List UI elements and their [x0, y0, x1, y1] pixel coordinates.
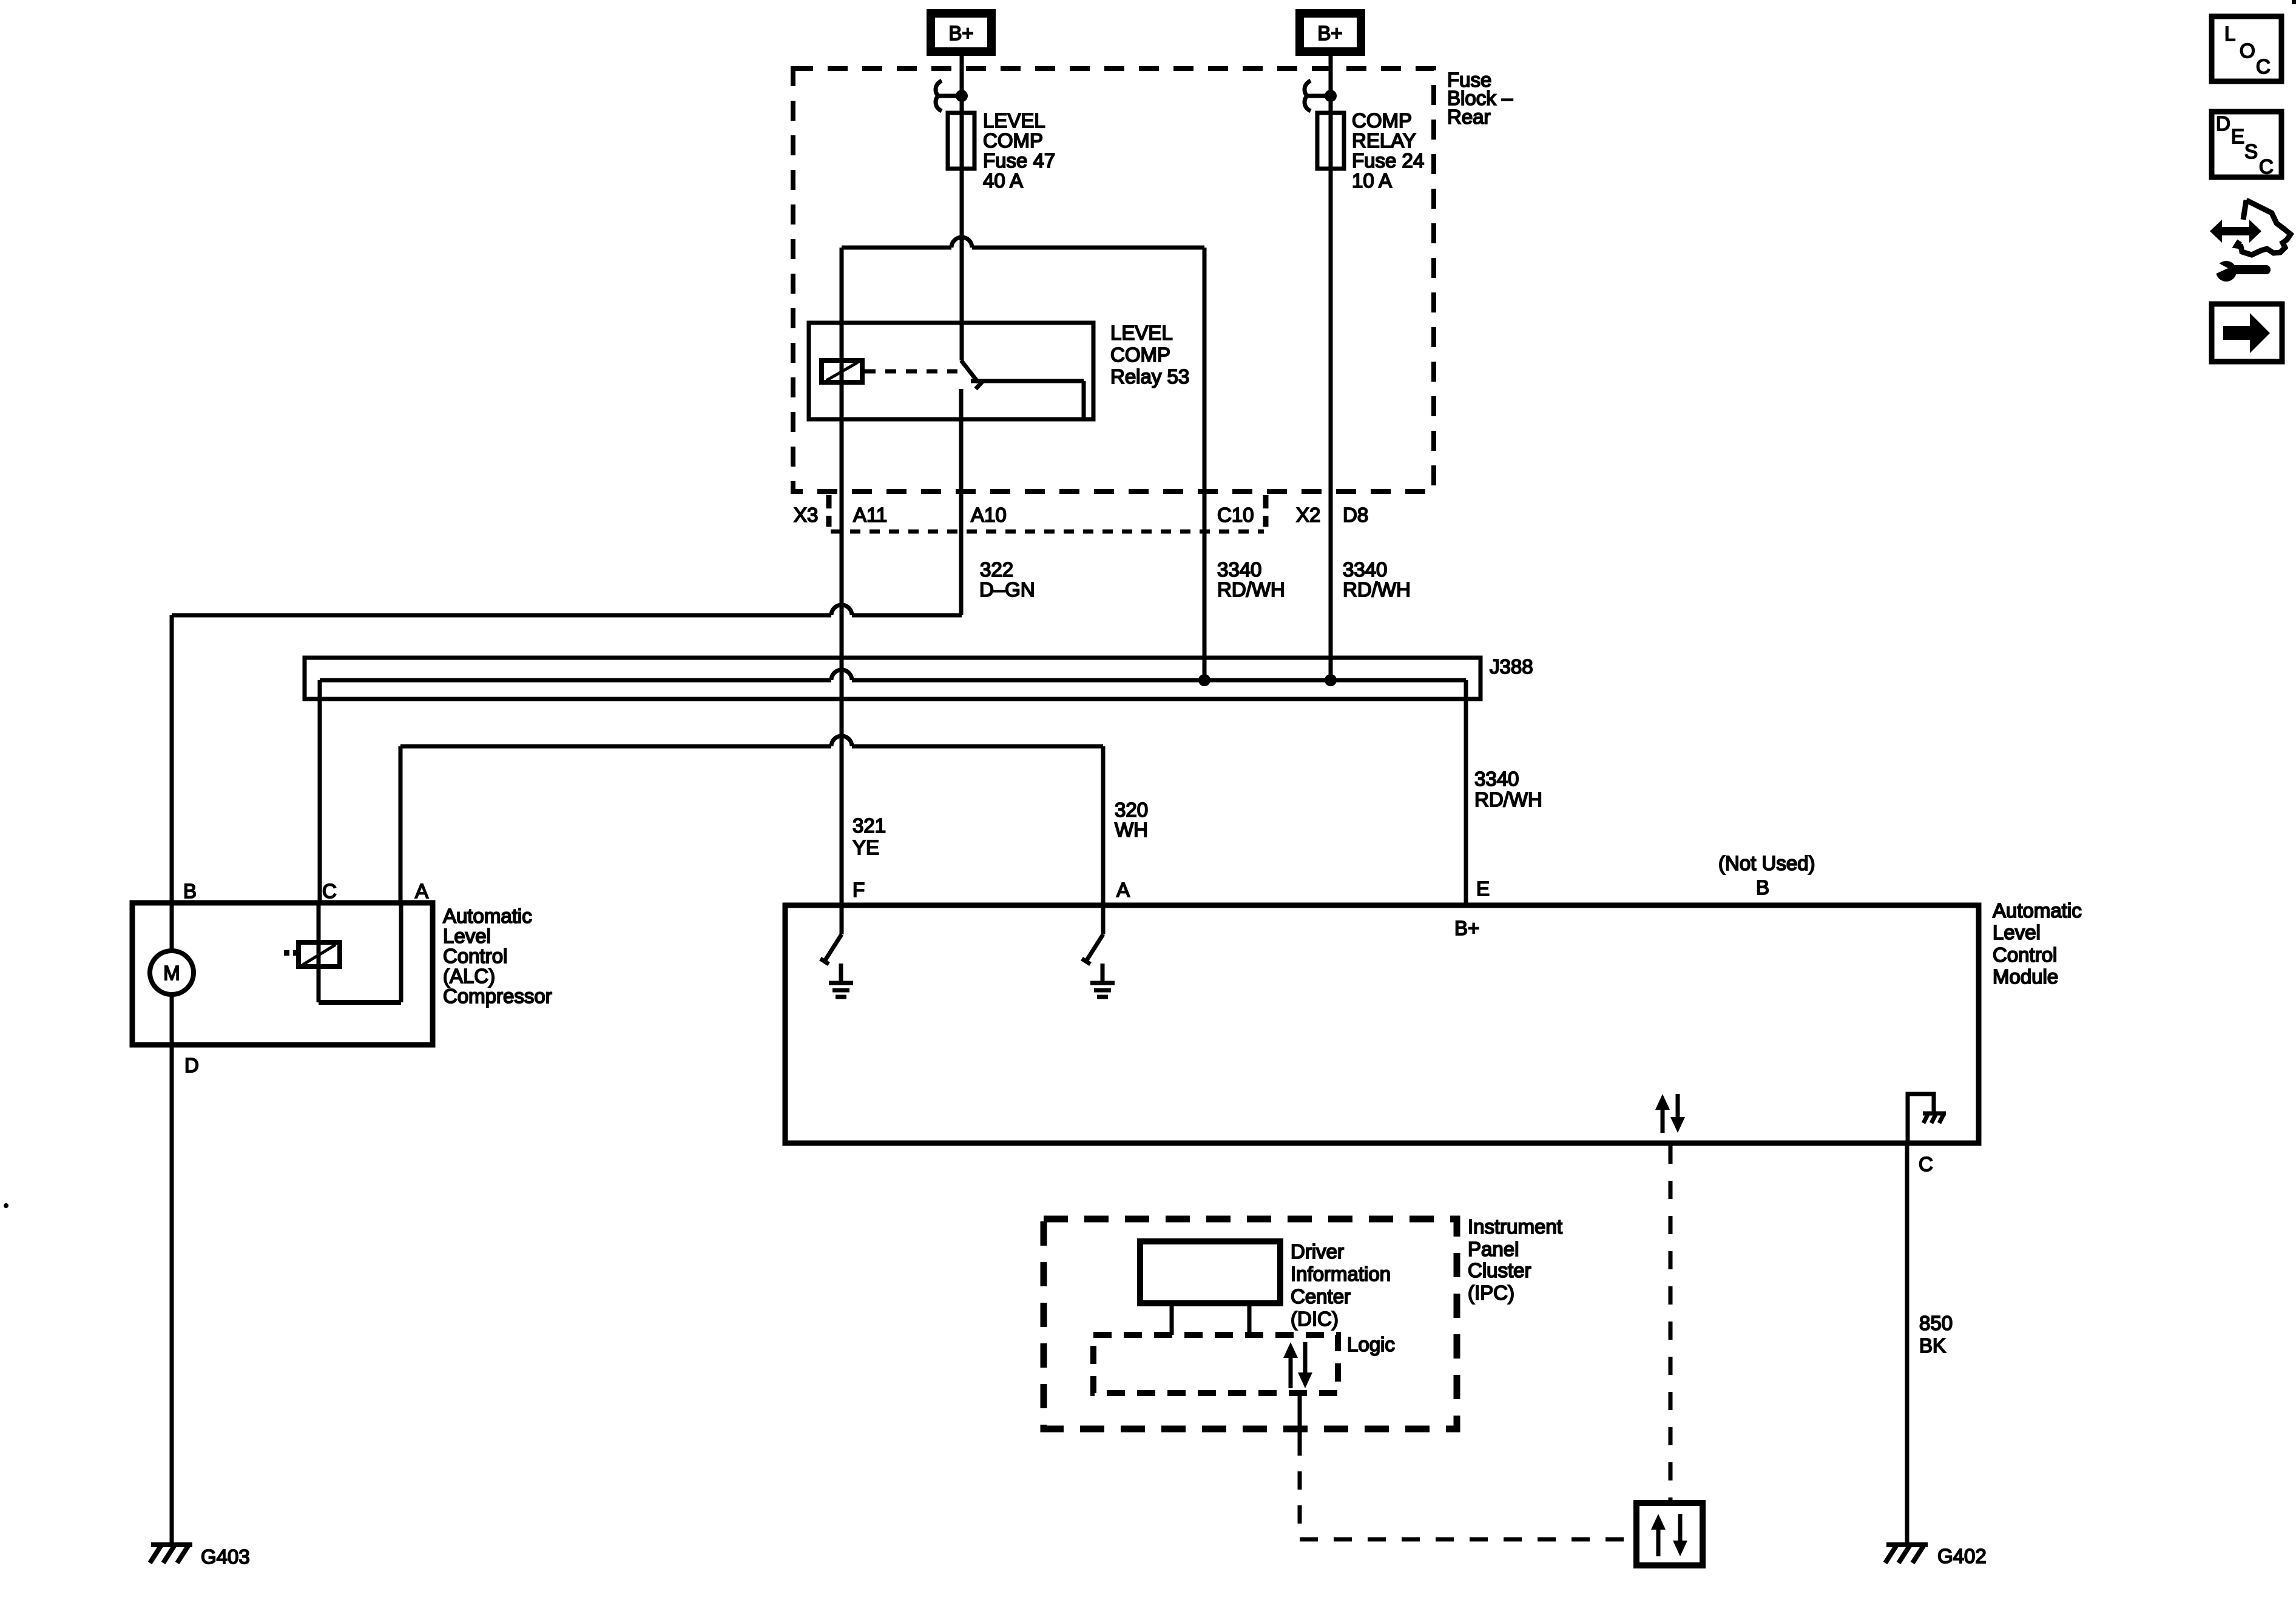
svg-text:Compressor: Compressor [443, 985, 552, 1007]
svg-text:G403: G403 [201, 1545, 250, 1568]
svg-text:(DIC): (DIC) [1291, 1308, 1339, 1330]
svg-text:Module: Module [1993, 965, 2058, 988]
svg-text:850: 850 [1919, 1312, 1953, 1334]
svg-text:Center: Center [1291, 1285, 1351, 1308]
svg-text:B+: B+ [948, 22, 973, 44]
svg-text:Level: Level [1993, 921, 2041, 944]
svg-text:40 A: 40 A [983, 169, 1023, 192]
svg-text:321: 321 [853, 814, 886, 837]
svg-text:A11: A11 [853, 504, 887, 526]
svg-text:10 A: 10 A [1352, 169, 1392, 192]
svg-text:Instrument: Instrument [1468, 1215, 1562, 1238]
svg-text:D–GN: D–GN [979, 578, 1035, 601]
svg-text:Logic: Logic [1347, 1333, 1395, 1355]
svg-text:S: S [2244, 140, 2258, 163]
svg-text:J388: J388 [1490, 655, 1533, 678]
svg-text:YE: YE [853, 836, 879, 859]
svg-text:COMP: COMP [1110, 343, 1170, 366]
svg-text:B+: B+ [1454, 917, 1479, 939]
svg-text:WH: WH [1115, 819, 1148, 841]
svg-text:Information: Information [1291, 1263, 1391, 1285]
svg-text:Relay 53: Relay 53 [1110, 365, 1189, 388]
svg-text:C: C [2256, 55, 2271, 78]
svg-text:LEVEL: LEVEL [1110, 322, 1173, 344]
svg-text:D8: D8 [1343, 504, 1368, 526]
svg-text:3340: 3340 [1217, 558, 1261, 581]
svg-text:Panel: Panel [1468, 1238, 1519, 1260]
svg-text:Driver: Driver [1291, 1240, 1344, 1263]
svg-text:3340: 3340 [1474, 768, 1519, 790]
svg-text:RELAY: RELAY [1352, 129, 1416, 152]
svg-text:Fuse 47: Fuse 47 [983, 149, 1055, 172]
svg-text:(ALC): (ALC) [443, 965, 495, 987]
svg-text:RD/WH: RD/WH [1217, 578, 1285, 601]
svg-text:E: E [2231, 125, 2244, 147]
svg-text:B: B [183, 880, 197, 902]
svg-text:RD/WH: RD/WH [1343, 578, 1411, 601]
svg-text:3340: 3340 [1343, 558, 1387, 581]
svg-text:F: F [853, 879, 865, 901]
svg-text:C: C [322, 880, 337, 902]
svg-text:322: 322 [980, 558, 1013, 581]
svg-text:320: 320 [1115, 798, 1148, 821]
svg-text:A: A [415, 880, 428, 902]
svg-text:M: M [163, 962, 180, 984]
svg-text:Rear: Rear [1447, 106, 1491, 128]
svg-text:Control: Control [443, 945, 507, 967]
svg-text:A: A [1116, 879, 1130, 901]
svg-text:X2: X2 [1296, 504, 1320, 526]
svg-text:X3: X3 [794, 504, 818, 526]
svg-text:L: L [2224, 22, 2235, 45]
svg-text:C10: C10 [1217, 504, 1254, 526]
svg-text:C: C [1919, 1153, 1933, 1175]
svg-text:Control: Control [1993, 944, 2057, 966]
svg-text:B: B [1756, 876, 1769, 899]
svg-text:B+: B+ [1317, 22, 1342, 44]
svg-text:A10: A10 [971, 504, 1007, 526]
svg-text:BK: BK [1919, 1334, 1946, 1357]
svg-text:C: C [2259, 155, 2274, 178]
svg-text:G402: G402 [1937, 1545, 1987, 1567]
svg-text:Fuse 24: Fuse 24 [1352, 149, 1424, 172]
svg-text:COMP: COMP [1352, 109, 1412, 132]
svg-text:COMP: COMP [983, 129, 1043, 152]
svg-text:(IPC): (IPC) [1468, 1281, 1514, 1304]
svg-text:(Not Used): (Not Used) [1718, 852, 1815, 874]
svg-text:RD/WH: RD/WH [1474, 788, 1542, 811]
svg-text:Automatic: Automatic [1993, 899, 2082, 922]
svg-text:Cluster: Cluster [1468, 1259, 1531, 1281]
svg-text:Level: Level [443, 925, 491, 947]
svg-text:D: D [184, 1054, 199, 1076]
svg-text:O: O [2240, 39, 2255, 62]
svg-text:D: D [2216, 112, 2230, 135]
svg-text:LEVEL: LEVEL [983, 109, 1045, 132]
svg-text:Automatic: Automatic [443, 905, 532, 927]
svg-text:E: E [1476, 877, 1490, 900]
